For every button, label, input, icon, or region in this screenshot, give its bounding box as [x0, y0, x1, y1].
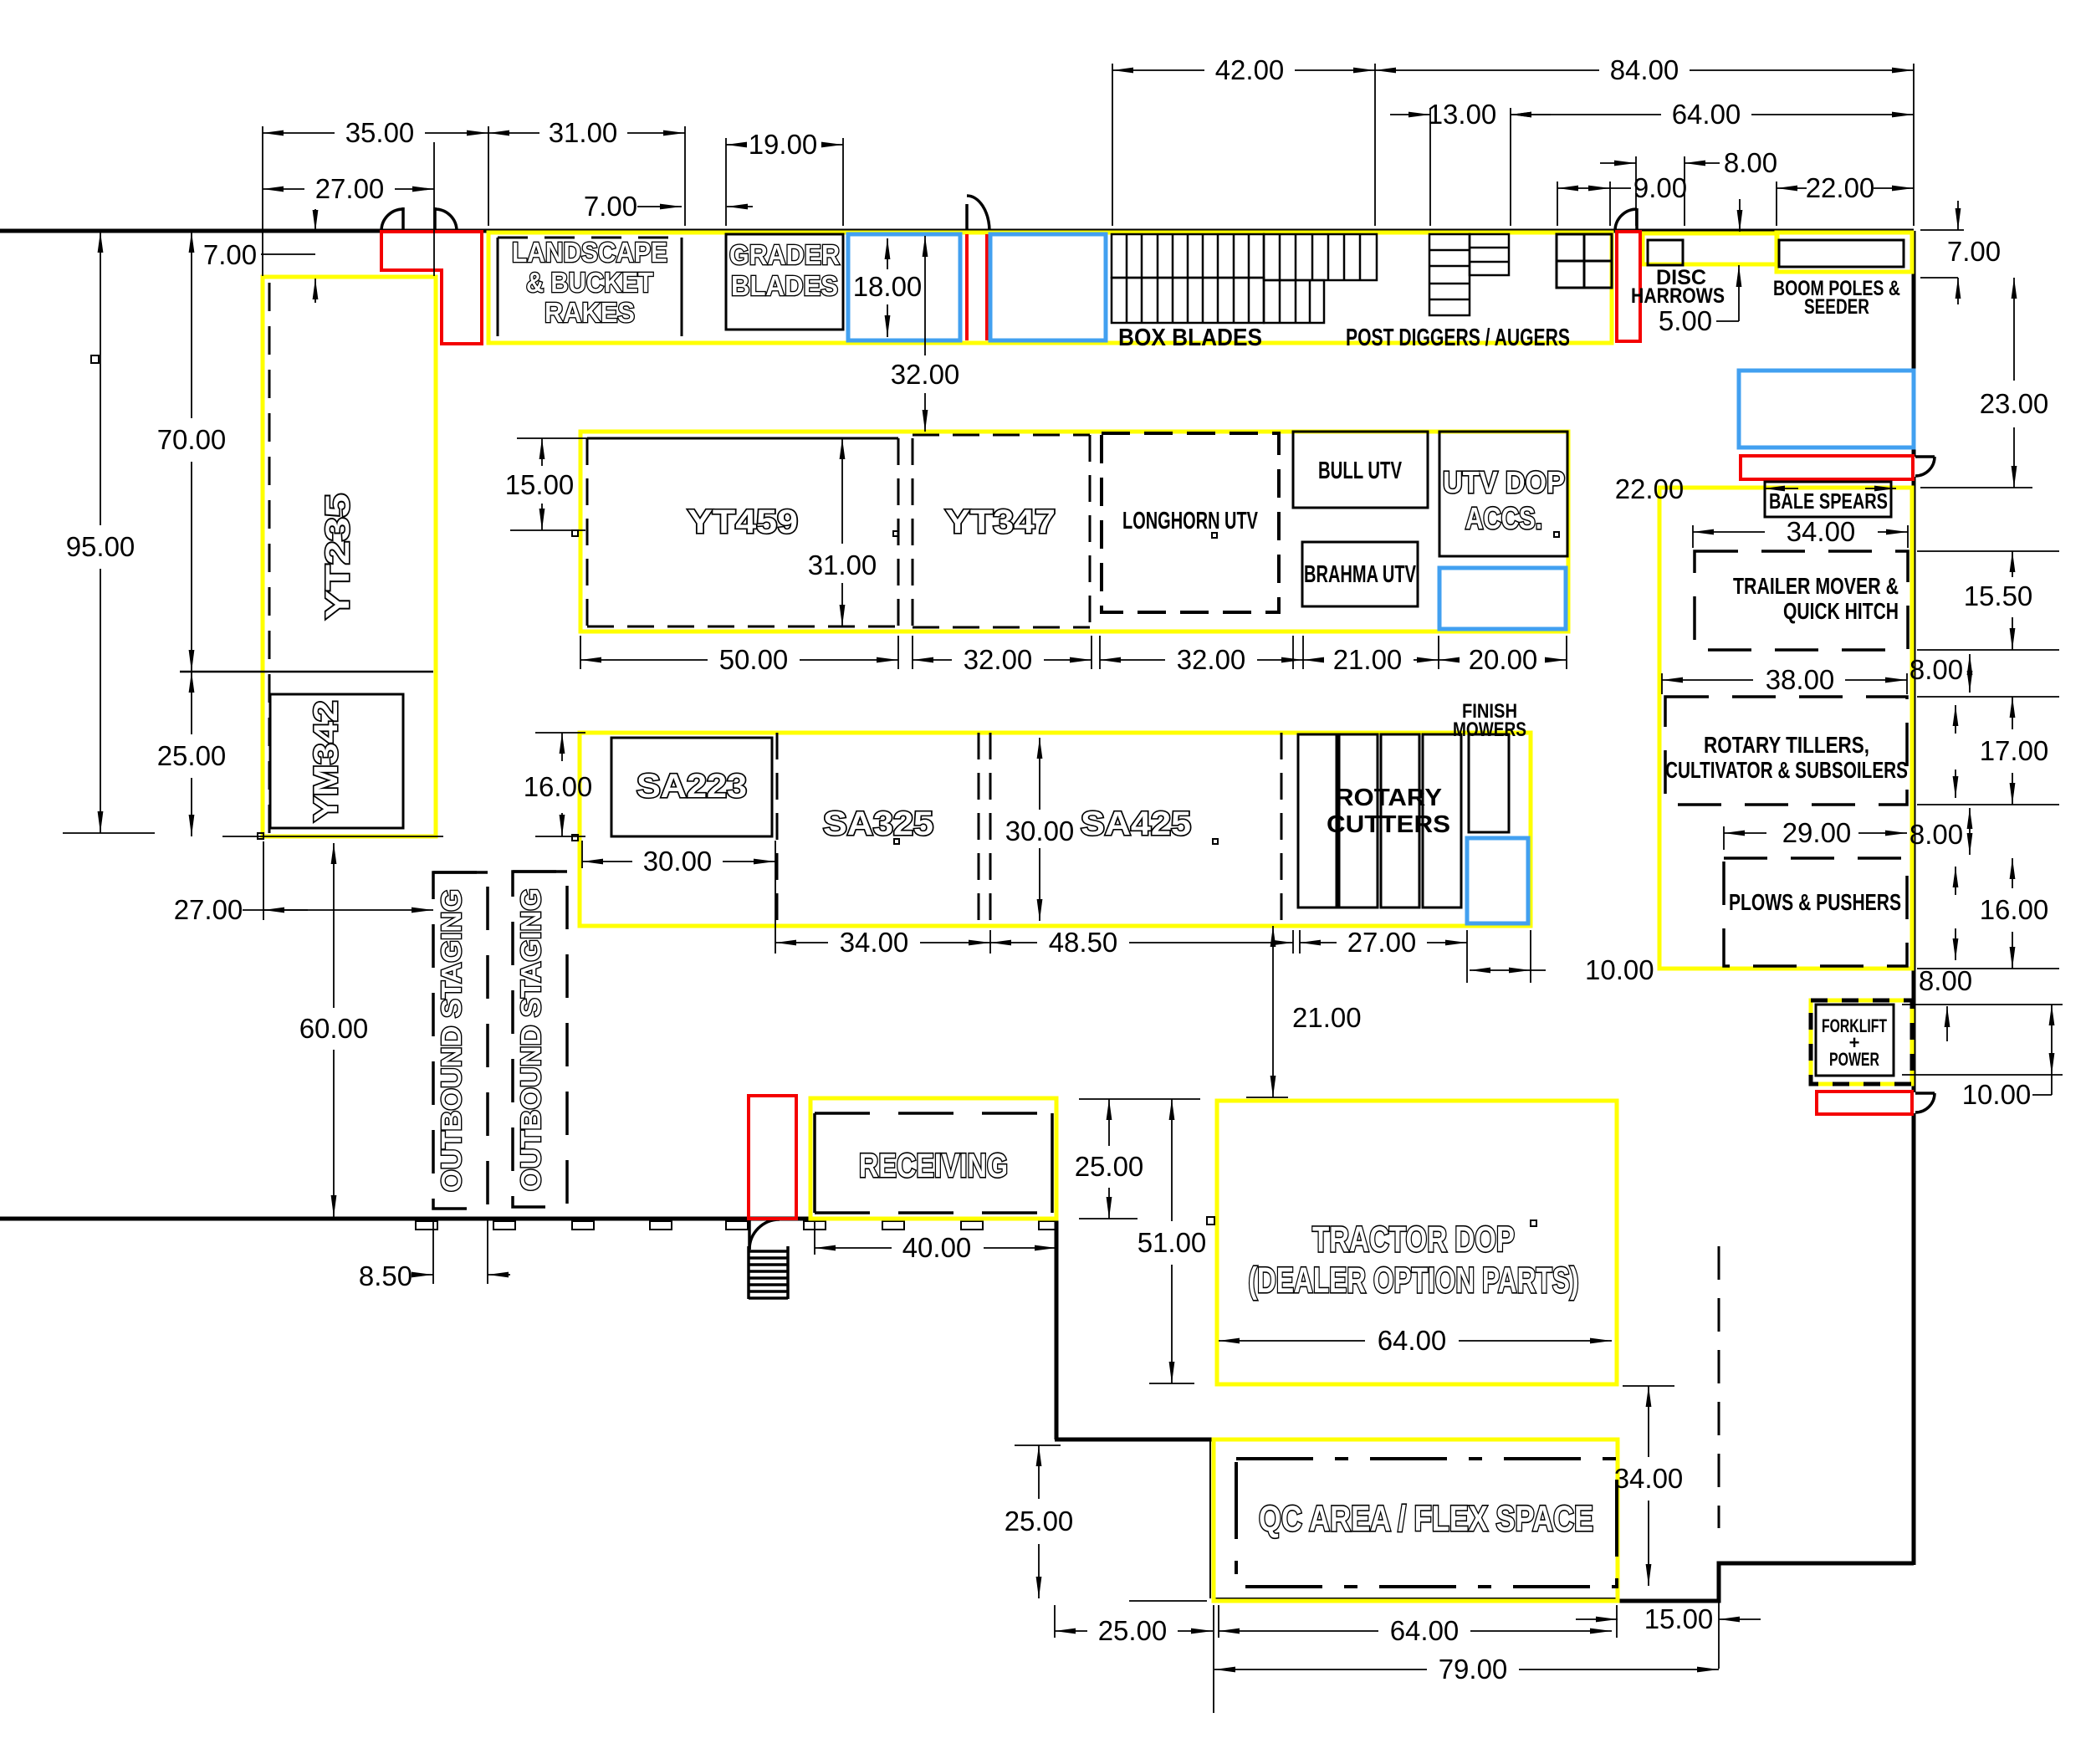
dim 27.00 left column — [243, 909, 308, 911]
door right wall bottom — [1915, 1093, 1935, 1112]
outbound staging box 1 — [433, 872, 488, 1209]
svg-text:25.00: 25.00 — [157, 740, 227, 771]
zone Y10 QC area yellow — [1214, 1439, 1618, 1601]
svg-text:YM342: YM342 — [308, 701, 345, 822]
dim 22.00 — [1777, 187, 1807, 189]
dim 8.00 forklift gap — [1946, 1006, 1948, 1041]
svg-text:BOX BLADES: BOX BLADES — [1118, 325, 1262, 351]
dim 19.00 — [726, 144, 739, 146]
svg-text:TRACTOR DOP: TRACTOR DOP — [1312, 1219, 1515, 1260]
svg-text:22.00: 22.00 — [1615, 473, 1685, 504]
dim 8.00 tillers-plows — [1969, 808, 1971, 855]
blue box finish mowers — [1467, 838, 1528, 923]
svg-text:20.00: 20.00 — [1469, 644, 1538, 675]
svg-text:34.00: 34.00 — [1787, 516, 1856, 547]
svg-text:& BUCKET: & BUCKET — [526, 267, 653, 298]
svg-text:BRAHMA UTV: BRAHMA UTV — [1304, 561, 1416, 588]
tractor dop insertion marks — [1207, 1217, 1214, 1225]
svg-text:5.00: 5.00 — [1659, 305, 1712, 336]
walls — [0, 231, 1914, 1601]
svg-text:42.00: 42.00 — [1215, 54, 1285, 85]
zone Y4 YT235 yellow — [263, 277, 436, 836]
svg-text:QUICK HITCH: QUICK HITCH — [1783, 598, 1899, 624]
door + stairs at bottom wall — [749, 1219, 788, 1299]
YT459 box — [587, 438, 913, 627]
dim 16.00 plows — [1917, 968, 2059, 969]
svg-text:BLADES: BLADES — [731, 270, 838, 301]
dim 25.00 left — [191, 672, 192, 734]
svg-text:8.00: 8.00 — [1910, 654, 1963, 685]
svg-text:31.00: 31.00 — [549, 117, 618, 148]
svg-text:27.00: 27.00 — [315, 173, 385, 204]
dim 38.00 — [1662, 679, 1753, 681]
red rect bottom right — [1817, 1092, 1912, 1114]
svg-text:64.00: 64.00 — [1378, 1325, 1447, 1356]
svg-text:ROTARY TILLERS,: ROTARY TILLERS, — [1704, 732, 1869, 758]
svg-text:ACCS.: ACCS. — [1465, 501, 1542, 535]
dim 21.00 vertical center — [1272, 926, 1274, 995]
dim 16.00 row3 — [561, 733, 563, 761]
dim 27.00 top — [263, 188, 304, 190]
svg-text:(DEALER OPTION PARTS): (DEALER OPTION PARTS) — [1249, 1260, 1579, 1301]
svg-text:64.00: 64.00 — [1390, 1615, 1460, 1646]
svg-text:7.00: 7.00 — [203, 239, 257, 270]
zone Y11 forklift yellow border — [1811, 1000, 1912, 1084]
disc harrows small box — [1648, 240, 1683, 265]
svg-text:29.00: 29.00 — [1782, 817, 1852, 848]
dim 25.00 QC vertical — [1038, 1445, 1040, 1499]
dim 34.00 QC right vertical — [1648, 1386, 1649, 1457]
LONGHORN UTV box — [1102, 433, 1279, 612]
dim 18.00 — [887, 238, 888, 269]
grader blades box — [726, 234, 843, 330]
zone Y7 trailer column yellow — [1659, 488, 1912, 969]
post diggers rack A right — [1470, 234, 1509, 275]
dim 35.00 ext lines — [262, 126, 263, 276]
svg-text:22.00: 22.00 — [1806, 172, 1875, 203]
boom poles rack — [1779, 240, 1904, 267]
YT347 box — [913, 435, 1090, 627]
dim 8.00 top — [1600, 162, 1636, 164]
dim 21.00 row2 — [1303, 659, 1322, 661]
dashed divider SA223/SA325 — [776, 733, 779, 924]
row3 bottom ext lines — [775, 841, 776, 954]
svg-text:SA325: SA325 — [823, 805, 933, 842]
dim 60.00 — [333, 843, 335, 1008]
dim 25.00 receiving — [1108, 1099, 1110, 1146]
svg-text:64.00: 64.00 — [1672, 99, 1741, 130]
svg-text:32.00: 32.00 — [964, 644, 1033, 675]
dim 31.00 — [488, 132, 539, 134]
svg-text:9.00: 9.00 — [1633, 172, 1687, 203]
dim 48.50 — [990, 942, 1037, 943]
svg-text:38.00: 38.00 — [1766, 664, 1835, 695]
svg-text:SA425: SA425 — [1081, 805, 1191, 842]
dashed line above step — [1718, 1246, 1720, 1528]
svg-text:YT347: YT347 — [945, 504, 1056, 540]
svg-text:15.00: 15.00 — [1644, 1603, 1714, 1634]
dim 25.00 QC horizontal — [1055, 1630, 1087, 1632]
dim 32.00 vertical blue box — [924, 236, 926, 355]
dim 35.00 — [263, 132, 335, 134]
svg-text:RAKES: RAKES — [544, 297, 635, 328]
svg-text:23.00: 23.00 — [1980, 388, 2049, 419]
dim 31.00 vertical — [841, 438, 843, 544]
svg-text:25.00: 25.00 — [1075, 1151, 1144, 1182]
svg-text:10.00: 10.00 — [1962, 1079, 2032, 1110]
QC area box — [1236, 1459, 1617, 1587]
svg-text:GRADER: GRADER — [729, 239, 840, 270]
wire mid vertical wall — [1055, 1219, 1059, 1439]
svg-text:27.00: 27.00 — [1347, 927, 1417, 958]
svg-text:17.00: 17.00 — [1980, 735, 2049, 766]
dim 10.00 forklift — [1902, 1004, 2063, 1005]
dim 34.00 trailer — [1693, 531, 1765, 533]
zone Y6 row3 yellow — [580, 733, 1531, 926]
svg-text:25.00: 25.00 — [1098, 1615, 1168, 1646]
svg-text:25.00: 25.00 — [1005, 1506, 1074, 1536]
svg-text:HARROWS: HARROWS — [1631, 284, 1725, 308]
landscape & bucket rakes box — [498, 238, 682, 336]
svg-text:32.00: 32.00 — [891, 359, 960, 390]
svg-text:LANDSCAPE: LANDSCAPE — [512, 237, 667, 268]
zone Y5 row2 yellow — [580, 432, 1568, 631]
box blades rack group1 top — [1112, 234, 1264, 278]
dim 15.50 — [1917, 550, 2059, 552]
finish mowers rack — [1469, 734, 1509, 832]
wire bottom wall — [0, 1217, 1056, 1221]
svg-text:34.00: 34.00 — [1614, 1463, 1684, 1494]
dim 84.00 — [1375, 69, 1599, 71]
dim 30.00 vertical SA — [1039, 738, 1040, 810]
dim 8.00 trailer-tillers — [1969, 654, 1971, 693]
svg-text:51.00: 51.00 — [1138, 1227, 1207, 1258]
post diggers rack A left — [1429, 234, 1470, 315]
svg-text:19.00: 19.00 — [749, 129, 818, 160]
svg-text:16.00: 16.00 — [1980, 894, 2049, 925]
svg-text:BALE SPEARS: BALE SPEARS — [1769, 488, 1888, 514]
zone Y9 tractor dop yellow — [1217, 1101, 1617, 1384]
svg-text:30.00: 30.00 — [643, 846, 713, 877]
svg-text:YT459: YT459 — [688, 504, 798, 540]
dim 34.00 row3 — [775, 942, 828, 943]
small marks — [91, 355, 99, 363]
YT235 inner dashed line — [268, 283, 271, 833]
svg-text:32.00: 32.00 — [1177, 644, 1246, 675]
dim 64.00 tractor — [1219, 1340, 1365, 1342]
zone Y2 disc harrows yellow — [1643, 233, 1777, 264]
red L-shape door pocket top-left — [381, 232, 482, 344]
svg-text:10.00: 10.00 — [1585, 954, 1654, 985]
svg-text:18.00: 18.00 — [853, 271, 923, 302]
red rect at disc harrows — [1617, 232, 1640, 341]
wire QC west wall — [1209, 1439, 1211, 1598]
dim 27.00 row3 — [1300, 942, 1337, 943]
svg-text:RECEIVING: RECEIVING — [859, 1148, 1008, 1184]
dim 70.00 — [191, 232, 192, 418]
dim 7.00 landscape-grader — [637, 206, 682, 207]
svg-text:8.00: 8.00 — [1910, 819, 1963, 850]
svg-text:YT235: YT235 — [320, 493, 356, 619]
svg-text:CUTTERS: CUTTERS — [1327, 811, 1450, 838]
svg-text:UTV DOP: UTV DOP — [1443, 465, 1565, 499]
dim 9.00 — [1557, 187, 1610, 189]
svg-text:70.00: 70.00 — [157, 424, 227, 455]
svg-text:SA223: SA223 — [637, 768, 747, 805]
svg-text:7.00: 7.00 — [1947, 236, 2001, 267]
door right wall at red box — [1915, 457, 1935, 476]
svg-text:95.00: 95.00 — [66, 531, 135, 562]
svg-text:POWER: POWER — [1829, 1049, 1879, 1070]
blue box 2 top strip — [990, 234, 1106, 340]
svg-text:30.00: 30.00 — [1005, 816, 1075, 846]
SA223 box — [611, 738, 772, 836]
svg-text:SEEDER: SEEDER — [1804, 295, 1869, 319]
dim 10.00 finish mowers — [1470, 969, 1531, 971]
dim 20.00 row2 — [1439, 659, 1457, 661]
svg-text:21.00: 21.00 — [1333, 644, 1403, 675]
svg-text:15.00: 15.00 — [505, 469, 575, 500]
dock tabs under bottom wall — [416, 1221, 1056, 1230]
dim 15.00 bottom — [1576, 1618, 1618, 1620]
box blades rack group1 bottom — [1112, 278, 1264, 323]
wire bottom-right step — [1618, 1563, 1914, 1601]
row2 bottom ext lines — [580, 636, 581, 669]
box blades rack group2 bottom — [1264, 280, 1324, 323]
svg-text:48.50: 48.50 — [1049, 927, 1118, 958]
dim 64.00 QC — [1219, 1630, 1378, 1632]
svg-text:50.00: 50.00 — [719, 644, 789, 675]
svg-text:40.00: 40.00 — [902, 1232, 972, 1263]
box blades rack group2 top — [1264, 234, 1377, 280]
wire QC south wall — [1214, 1598, 1618, 1599]
svg-text:OUTBOUND STAGING: OUTBOUND STAGING — [436, 889, 467, 1192]
svg-text:13.00: 13.00 — [1428, 99, 1497, 130]
dim 32.00 row2 a — [913, 659, 952, 661]
dim 50.00 — [580, 659, 708, 661]
post diggers rack B window — [1557, 234, 1612, 288]
forklift inner box — [1816, 1005, 1894, 1076]
dim 32.00 row2 b — [1100, 659, 1165, 661]
dim 5.00 leader — [1716, 320, 1739, 322]
dim 29.00 — [1724, 832, 1766, 834]
zone Y8 receiving yellow — [810, 1098, 1056, 1219]
dashed double divider SA325/SA425 — [978, 733, 980, 924]
wire mid horizontal wall — [1055, 1438, 1212, 1442]
svg-text:BULL UTV: BULL UTV — [1318, 458, 1402, 484]
outbound staging box 2 — [513, 872, 567, 1207]
dashed divider SA425/rotary — [1281, 733, 1283, 924]
dim 95.00 — [100, 232, 101, 525]
svg-text:OUTBOUND STAGING: OUTBOUND STAGING — [515, 888, 546, 1191]
svg-text:MOWERS: MOWERS — [1453, 718, 1526, 741]
red rect at receiving — [749, 1096, 796, 1219]
svg-text:7.00: 7.00 — [584, 191, 637, 222]
svg-text:79.00: 79.00 — [1439, 1654, 1508, 1685]
svg-text:35.00: 35.00 — [345, 117, 415, 148]
svg-text:TRAILER MOVER &: TRAILER MOVER & — [1733, 573, 1899, 599]
dim 64.00 top — [1511, 114, 1661, 115]
dim 22.00 bale — [1764, 488, 1798, 489]
svg-text:60.00: 60.00 — [299, 1013, 369, 1044]
UTV DOP ACCS box — [1439, 432, 1567, 556]
dim 40.00 — [815, 1247, 892, 1249]
svg-text:84.00: 84.00 — [1610, 54, 1679, 85]
svg-text:21.00: 21.00 — [1292, 1002, 1362, 1033]
zone Y1 top strip yellow — [488, 233, 1612, 343]
dim 79.00 — [1214, 1669, 1427, 1670]
dim 23.00 — [2013, 278, 2015, 381]
door at top wall center — [967, 196, 989, 231]
svg-text:ROTARY: ROTARY — [1335, 785, 1442, 811]
svg-text:LONGHORN UTV: LONGHORN UTV — [1122, 508, 1258, 534]
wire top wall — [0, 229, 1914, 233]
blue box under UTV DOP — [1439, 568, 1566, 629]
svg-text:15.50: 15.50 — [1964, 580, 2033, 611]
blue box 1 top strip — [848, 234, 960, 340]
BULL UTV box — [1293, 432, 1428, 508]
dim 42.00 — [1112, 69, 1204, 71]
red rect right mid — [1741, 456, 1913, 479]
red door lines between blue boxes — [965, 234, 969, 340]
svg-text:8.00: 8.00 — [1919, 965, 1972, 996]
blue box right mid — [1739, 371, 1914, 447]
rotary tillers box — [1665, 697, 1907, 805]
wire right wall mid — [1912, 477, 1916, 1092]
svg-text:CULTIVATOR & SUBSOILERS: CULTIVATOR & SUBSOILERS — [1665, 757, 1908, 783]
rotary cutters rack columns — [1298, 734, 1461, 908]
svg-text:QC AREA / FLEX SPACE: QC AREA / FLEX SPACE — [1259, 1499, 1593, 1539]
wire right wall lower — [1912, 1113, 1916, 1565]
svg-text:27.00: 27.00 — [174, 894, 243, 925]
svg-text:34.00: 34.00 — [840, 927, 909, 958]
bale spears box — [1765, 482, 1891, 517]
BRAHMA UTV box — [1302, 542, 1418, 606]
dim 8.50 — [432, 1220, 434, 1284]
svg-text:8.50: 8.50 — [359, 1260, 412, 1291]
zone Y3 boom poles yellow — [1777, 233, 1912, 272]
divider line YT235/YM342 — [180, 671, 433, 673]
dim 7.00 right — [1957, 201, 1959, 230]
trailer mover box — [1695, 551, 1908, 650]
wire right wall upper — [1912, 231, 1916, 457]
svg-text:POST DIGGERS / AUGERS: POST DIGGERS / AUGERS — [1346, 325, 1570, 351]
svg-text:16.00: 16.00 — [524, 771, 593, 802]
receiving box — [815, 1113, 1052, 1213]
svg-text:31.00: 31.00 — [808, 550, 877, 580]
dim 51.00 — [1171, 1099, 1173, 1221]
svg-text:PLOWS & PUSHERS: PLOWS & PUSHERS — [1729, 889, 1901, 915]
plows & pushers box — [1724, 858, 1907, 966]
dim 7.00 left — [261, 253, 315, 255]
svg-text:8.00: 8.00 — [1724, 147, 1777, 178]
dim 17.00 — [1917, 696, 2059, 698]
door pair at top-left wall — [381, 207, 457, 231]
dim 13.00 — [1390, 114, 1430, 115]
door at disc harrows — [1615, 208, 1637, 231]
YM342 box — [270, 694, 403, 828]
dim 30.00 horizontal — [582, 861, 632, 862]
dim 15.00 row2 — [541, 438, 543, 466]
